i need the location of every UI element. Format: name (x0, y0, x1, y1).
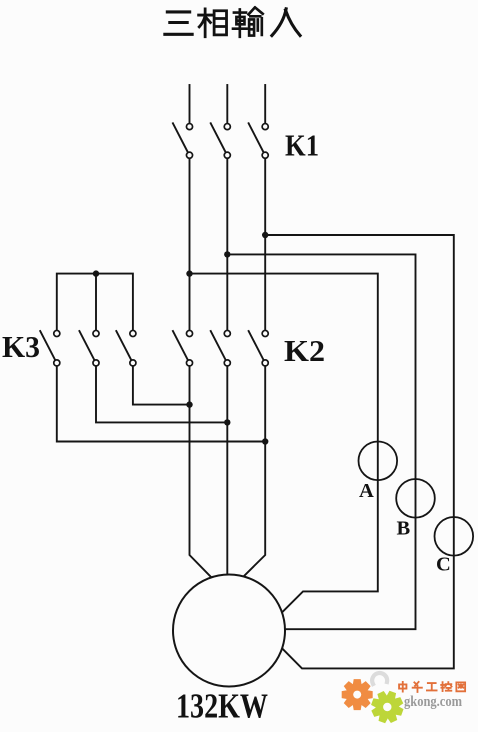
svg-text:C: C (436, 554, 451, 576)
wire L1 mid segment (189, 159, 191, 331)
junction dot L1 / CT A tap (186, 270, 192, 276)
switch K3 pole 1 (40, 330, 60, 366)
wire K3 star bus (57, 274, 133, 331)
svg-text:132KW: 132KW (176, 687, 268, 726)
switch K2 pole 2 (211, 330, 231, 366)
wire phase L1 top drop (189, 85, 191, 123)
wire L1 lower to motor (190, 366, 212, 577)
wire L2 lower to motor (226, 366, 228, 575)
junction dot link on L1 (186, 401, 192, 407)
svg-text:gkong.com: gkong.com (404, 694, 462, 710)
svg-text:K3: K3 (2, 329, 40, 364)
svg-text:K1: K1 (285, 128, 319, 163)
wire CT B branch: L2 tap to motor (227, 254, 415, 629)
junction dot L3 / CT C tap (262, 232, 268, 238)
junction dot K3 bus middle (93, 270, 99, 276)
switch K1 pole 3 (249, 123, 269, 158)
wire L3 mid segment (264, 159, 266, 331)
switch K2 pole 1 (173, 330, 193, 366)
junction dot L2 / CT B tap (224, 251, 230, 257)
junction dot link on L2 (224, 419, 230, 425)
motor M 132KW (173, 575, 285, 687)
wire CT A branch: L1 tap to motor (190, 274, 378, 613)
switch K3 pole 3 (116, 330, 136, 366)
current transformer B (396, 479, 435, 518)
wire K3 pole1 to L3 link (57, 366, 265, 441)
switch K2 pole 3 (249, 330, 269, 366)
switch K1 pole 2 (211, 123, 231, 158)
svg-text:A: A (359, 480, 374, 502)
current transformer C (435, 517, 474, 556)
watermark text 中华工控网 (399, 682, 465, 692)
watermark green gear (371, 690, 404, 723)
switch K3 pole 2 (79, 330, 99, 366)
wire K3 pole2 to L2 link (96, 366, 227, 422)
watermark swoosh (372, 673, 387, 684)
junction dot link on L3 (262, 438, 268, 444)
svg-text:K2: K2 (284, 333, 325, 368)
svg-text:B: B (397, 518, 411, 540)
watermark orange gear (342, 679, 373, 710)
current transformer A (359, 442, 398, 481)
wire K3 middle drop (95, 274, 97, 331)
wire L2 mid segment (226, 159, 228, 331)
wire phase L2 top drop (226, 85, 228, 123)
switch K1 pole 1 (173, 123, 193, 158)
wire phase L3 top drop (264, 85, 266, 123)
wire K3 pole3 to L1 link (133, 366, 190, 404)
wire CT C branch: L3 tap to motor (265, 235, 454, 668)
title 三相输入 (three-phase input) (165, 8, 300, 37)
wire L3 lower to motor (244, 366, 266, 576)
